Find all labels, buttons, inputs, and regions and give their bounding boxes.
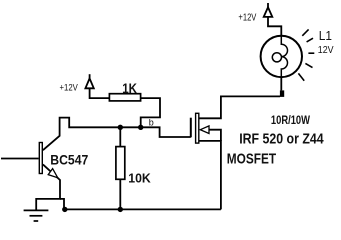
svg-text:10R/10W: 10R/10W	[271, 113, 311, 127]
svg-text:L1: L1	[319, 28, 332, 43]
svg-text:1K: 1K	[122, 81, 137, 96]
svg-text:IRF 520 or Z44: IRF 520 or Z44	[239, 131, 323, 147]
svg-text:+12V: +12V	[238, 12, 256, 23]
svg-text:10K: 10K	[128, 171, 151, 186]
svg-text:12V: 12V	[318, 45, 334, 56]
svg-text:b: b	[149, 117, 154, 127]
svg-text:MOSFET: MOSFET	[227, 152, 276, 168]
svg-text:BC547: BC547	[50, 153, 88, 169]
svg-text:+12V: +12V	[60, 83, 78, 93]
